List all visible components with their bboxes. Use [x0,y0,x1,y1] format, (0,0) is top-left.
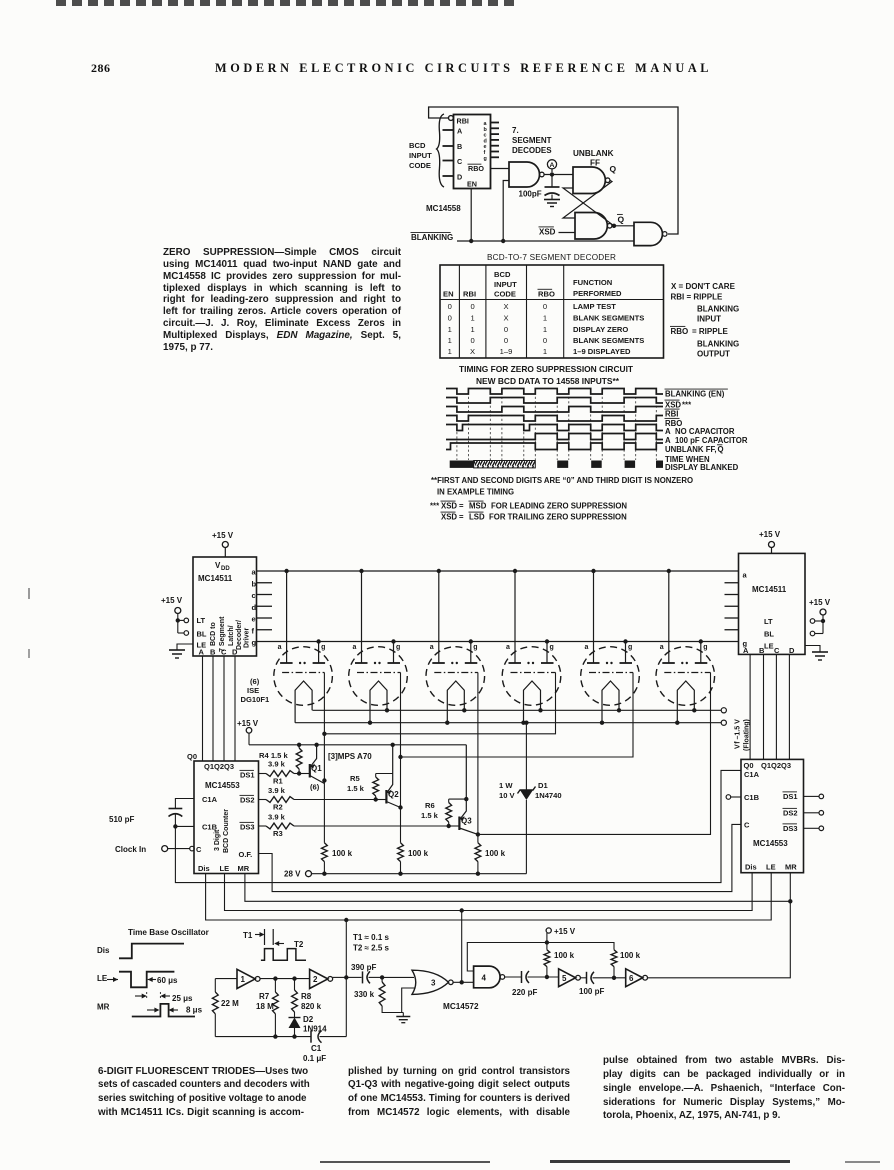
label MC14572 [443,1002,479,1011]
resistor R6 1.5k [421,797,468,828]
svg-text:FUNCTION: FUNCTION [573,278,612,287]
svg-text:[3]MPS A70: [3]MPS A70 [328,752,372,761]
svg-text:(Floating): (Floating) [744,719,751,751]
resistor R5 1.5k [347,743,395,802]
svg-text:g: g [628,644,632,651]
svg-text:+15 V: +15 V [237,719,259,728]
svg-text:TIMING FOR ZERO SUPPRESSION CI: TIMING FOR ZERO SUPPRESSION CIRCUIT [459,364,634,374]
running head [215,61,712,76]
svg-text:RBO: RBO [468,164,484,173]
inverter G6 osc 2 [310,969,333,988]
svg-text:MC14572: MC14572 [443,1002,479,1011]
svg-text:=: = [459,502,464,511]
svg-text:MC14553: MC14553 [205,781,240,790]
svg-text:DS3: DS3 [240,823,255,832]
svg-text:820 k: 820 k [301,1002,322,1011]
svg-text:1: 1 [543,347,547,356]
svg-text:+15 V: +15 V [809,598,831,607]
capacitor 510pF [109,799,194,829]
svg-text:DS1: DS1 [783,792,798,801]
waveform unblank FF Q [446,443,663,450]
svg-text:OUTPUT: OUTPUT [697,350,730,359]
svg-text:100 pF: 100 pF [579,987,604,996]
svg-text:g: g [321,644,325,651]
input BLANKING [411,232,635,243]
svg-text:LE: LE [764,642,774,651]
wire Dis to right LE [206,873,772,923]
svg-text:(6): (6) [310,783,320,792]
wire +15V rail transistors [237,719,466,745]
svg-text:Driver: Driver [244,627,251,648]
segment stubs b-f left [257,583,273,630]
IC U3 MC14511 right [739,553,806,654]
svg-text:Time Base Oscillator: Time Base Oscillator [128,928,210,937]
svg-text:22 M: 22 M [221,999,239,1008]
svg-text:D: D [232,648,238,657]
svg-text:BLANKING: BLANKING [411,233,453,242]
svg-text:LE: LE [220,864,230,873]
wire gate3 to gate4 [453,911,474,985]
waveform A 100pF capacitor [446,434,663,440]
bottom column 3 [603,1054,845,1123]
svg-text:RBI = RIPPLE: RBI = RIPPLE [671,293,723,302]
wire BCD lines left [203,656,236,761]
svg-text:b: b [252,579,257,588]
resistor R3 3.9k [259,813,449,839]
svg-text:c: c [252,591,256,600]
svg-text:R2: R2 [273,803,283,812]
ground 330k [396,1013,410,1023]
page number [91,61,111,76]
diode D2 1N914 [289,1015,328,1039]
waveform RBI [446,407,663,413]
svg-text:D2: D2 [303,1015,314,1024]
svg-text:BCD-TO-7 SEGMENT DECODER: BCD-TO-7 SEGMENT DECODER [487,253,616,262]
svg-text:IN EXAMPLE TIMING: IN EXAMPLE TIMING [437,488,514,497]
svg-text:g: g [550,644,554,651]
svg-text:XSD: XSD [441,513,457,522]
wire gate4 feedback [467,940,614,971]
svg-text:A: A [550,162,555,169]
svg-text:UNBLANK FF,: UNBLANK FF, [665,445,717,454]
svg-text:25 μs: 25 μs [172,994,193,1003]
svg-text:C: C [196,845,202,854]
svg-text:0: 0 [543,336,547,345]
legend table notes [670,282,739,359]
waveform A no capacitor [446,425,663,431]
resistor R7 18M [256,976,310,1038]
svg-text:6: 6 [629,974,634,983]
svg-text:BLANK SEGMENTS: BLANK SEGMENTS [573,336,644,345]
resistor 100k Q3 [475,843,506,874]
svg-text:g: g [252,638,257,647]
svg-text:XSD: XSD [665,401,681,410]
svg-text:330 k: 330 k [354,990,375,999]
svg-text:D1: D1 [538,781,548,790]
tube V6 DG10F1 [656,571,715,723]
svg-text:INPUT: INPUT [409,151,432,160]
svg-text:g: g [484,156,487,162]
svg-text:Dis: Dis [97,946,110,955]
terminal DS3 right [804,826,824,831]
svg-text:3.9 k: 3.9 k [268,813,286,822]
wire G1 second input from blanking [503,181,509,242]
svg-text:100 k: 100 k [485,849,506,858]
segment stubs right 14511 [725,583,739,630]
inverter G5 osc 1 [215,969,260,988]
waveform XSD [446,398,663,404]
BCD input stubs A B C D [443,130,454,176]
svg-text:MC14511: MC14511 [752,585,787,594]
svg-text:1: 1 [543,314,547,323]
inverter G9 5 [559,969,581,987]
svg-text:Q: Q [718,445,724,454]
inverter G10 6 [626,969,648,987]
svg-text:(6): (6) [250,677,260,686]
svg-text:510 pF: 510 pF [109,815,134,824]
svg-text:BLANKING: BLANKING [697,305,739,314]
svg-text:1–9 DISPLAYED: 1–9 DISPLAYED [573,347,631,356]
wire MR bus [245,873,793,904]
capacitor C 100pF [519,175,560,199]
resistor R4 1.5k [259,743,302,776]
svg-text:g: g [703,644,707,651]
wire segment a bus [257,569,739,573]
svg-text:0.1 μF: 0.1 μF [303,1054,326,1063]
terminal DS1 right [804,794,824,799]
svg-text:INPUT: INPUT [697,315,721,324]
tube V3 DG10F1 [426,571,485,723]
IC U2 MC14511 left [193,557,257,657]
svg-text:Latch/: Latch/ [228,625,235,646]
svg-text:0: 0 [448,302,452,311]
svg-text:d: d [252,603,257,612]
svg-text:DD: DD [221,566,230,572]
capacitor 100pF [579,972,626,996]
svg-text:1.5 k: 1.5 k [347,784,365,793]
svg-text:B: B [210,648,216,657]
svg-text:1: 1 [448,347,452,356]
svg-text:5: 5 [562,974,567,983]
capacitor 390pF [346,963,414,983]
svg-text:BL: BL [764,630,774,639]
wire LE to right Dis [225,873,753,913]
label Time Base Oscillator [128,928,210,937]
svg-text:R3: R3 [273,829,283,838]
wire segment g bus [257,639,739,643]
svg-text:MSD: MSD [469,502,487,511]
svg-text:C1: C1 [311,1044,322,1053]
input XSD [539,227,576,237]
svg-text:1: 1 [543,325,547,334]
svg-text:EN: EN [443,290,454,299]
resistor R8 820k [292,976,322,1017]
gate G7 NOR 3 [402,970,453,1012]
svg-text:X: X [503,302,508,311]
svg-text:B: B [759,646,765,655]
svg-text:DG10F1: DG10F1 [241,695,270,704]
svg-text:7.: 7. [512,126,519,135]
svg-text:DS2: DS2 [240,796,255,805]
label tube type (6) ISE DG10F1 [241,677,270,704]
terminal Clock In [115,845,190,854]
7 segment output stubs [491,123,553,158]
svg-text:Q2: Q2 [388,790,399,799]
waveform BLANKING (EN) [446,389,663,395]
power terminal +15V right 14511 [759,530,781,553]
svg-text:100 k: 100 k [332,849,353,858]
svg-text:RBI: RBI [665,410,678,419]
ground below C [544,195,560,207]
svg-text:R1: R1 [273,777,283,786]
svg-text:MR: MR [238,864,250,873]
wire Qbar to G4 [614,225,634,227]
tube V4 DG10F1 [502,571,561,723]
svg-text:LT: LT [764,617,773,626]
svg-text:R4 1.5 k: R4 1.5 k [259,751,288,760]
svg-text:0: 0 [470,336,474,345]
label UNBLANK FF [573,149,614,168]
svg-text:A 100 pF CAPACITOR: A 100 pF CAPACITOR [665,436,748,445]
svg-text:1 W: 1 W [499,781,513,790]
svg-text:+15 V: +15 V [161,596,183,605]
svg-text:XSD: XSD [441,502,457,511]
svg-text:T1 ≈ 0.1 s: T1 ≈ 0.1 s [353,933,390,942]
wire C1B to right C1A [175,770,741,882]
transistor Q3 [449,745,478,835]
svg-text:LE: LE [766,863,776,872]
svg-text:3.9 k: 3.9 k [268,786,286,795]
svg-text:a: a [660,644,664,651]
svg-text:1N4740: 1N4740 [535,791,562,800]
svg-text:X: X [470,347,475,356]
svg-text:DISPLAY ZERO: DISPLAY ZERO [573,325,628,334]
wire grid line tube1 to Q1 [322,673,326,843]
timing labels [665,389,748,472]
svg-text:Clock In: Clock In [115,845,146,854]
wire EN to blanking [470,189,472,242]
svg-text:100pF: 100pF [519,190,542,199]
svg-text:a: a [353,644,357,651]
resistor 100k Q2 [398,843,429,874]
svg-text:Decoder/: Decoder/ [236,620,243,650]
waveform LE [97,972,178,988]
bottom column 2 [348,1065,570,1120]
wire inv6 to MR bus [648,901,791,978]
svg-text:A: A [457,127,462,136]
svg-text:B: B [457,142,462,151]
diode D1 1N4740 zener [499,723,562,874]
svg-text:R6: R6 [425,801,435,810]
svg-text:C1A: C1A [744,770,760,779]
svg-text:Q0: Q0 [187,752,197,761]
svg-text:RBO: RBO [671,327,689,336]
resistor 100k mvbr right [611,950,640,978]
IC U5 MC14553 right counter [741,759,804,872]
svg-text:BL: BL [197,630,207,639]
svg-text:DECODES: DECODES [512,146,552,155]
svg-text:1.5 k: 1.5 k [421,811,439,820]
wire filament bus 1 [312,708,721,712]
svg-text:10 V: 10 V [499,791,516,800]
tube V5 DG10F1 [581,571,640,723]
wire OF to right C [259,824,742,891]
svg-text:**FIRST AND SECOND DIGITS ARE: **FIRST AND SECOND DIGITS ARE “0” AND TH… [431,476,693,485]
svg-text:a: a [585,644,589,651]
svg-text:18 M: 18 M [256,1002,274,1011]
svg-text:C1B: C1B [744,793,760,802]
svg-text:BLANKING: BLANKING [697,340,739,349]
svg-text:1: 1 [470,325,474,334]
title timing [459,364,634,386]
svg-text:a: a [278,644,282,651]
svg-text:MC14553: MC14553 [753,839,788,848]
svg-text:g: g [473,644,477,651]
wire digit select 1 to tube4 [324,673,555,734]
waveform Dis [97,944,184,959]
svg-text:BLANK SEGMENTS: BLANK SEGMENTS [573,314,644,323]
ground at LE left 14511 [169,644,193,658]
svg-text:3.9 k: 3.9 k [268,760,286,769]
top bleed text row [56,0,520,6]
svg-text:LE: LE [97,974,108,983]
capacitor 220pF [504,971,558,997]
svg-text:1: 1 [470,314,474,323]
svg-text:4: 4 [482,974,487,983]
svg-text:0: 0 [543,302,547,311]
svg-text:A: A [743,646,749,655]
svg-text:a: a [430,644,434,651]
svg-text:0: 0 [448,314,452,323]
brace BCD INPUT CODE [409,114,444,187]
wire feedback top loop from output NAND to RBI [429,107,678,234]
svg-text:220 pF: 220 pF [512,988,537,997]
wire digit select 2 to tube5 [401,673,634,758]
tube V1 DG10F1 [274,571,333,723]
svg-text:MR: MR [97,1003,110,1012]
wire filament bus 2 [295,721,721,725]
terminal +15V at right LT BL [809,598,831,636]
title BCD-TO-7 SEGMENT DECODER [487,253,616,262]
svg-text:R8: R8 [301,992,312,1001]
svg-text:+15 V: +15 V [759,530,781,539]
pin C1B bubble right counter [726,795,741,800]
svg-text:Q1Q2Q3: Q1Q2Q3 [204,762,234,771]
svg-text:V f –1.5 V: V f –1.5 V [735,719,742,749]
svg-text:O.F.: O.F. [239,850,253,859]
node A [544,160,573,177]
svg-text:Q0: Q0 [744,761,754,770]
svg-text:PERFORMED: PERFORMED [573,289,622,298]
resistor 100k mvbr left [544,950,575,977]
NAND gate G2 flip-flop top, output Q [573,164,617,194]
svg-text:2: 2 [313,975,318,984]
svg-text:UNBLANK: UNBLANK [573,149,614,158]
svg-text:Q1Q2Q3: Q1Q2Q3 [761,761,791,770]
footnotes [430,476,693,522]
timing grid dashed lines [457,388,656,460]
resistor 22M [212,979,239,1037]
svg-text:1–9: 1–9 [500,347,513,356]
transistor Q2 [376,745,401,808]
svg-text:= RIPPLE: = RIPPLE [692,327,728,336]
svg-text:1N914: 1N914 [303,1025,327,1034]
label T1 T2 values [353,933,390,953]
left article paragraph [163,247,401,354]
svg-text:100 k: 100 k [554,951,575,960]
svg-text:+15 V: +15 V [554,927,576,936]
svg-text:a: a [506,644,510,651]
wire grid line tube3 to Q3 [476,673,480,843]
waveform MR [97,992,203,1017]
svg-text:1: 1 [448,325,452,334]
svg-text:0: 0 [470,302,474,311]
svg-text:R7: R7 [259,992,270,1001]
svg-text:C1A: C1A [202,795,218,804]
svg-text:Dis: Dis [198,864,210,873]
tube V2 DG10F1 [349,571,408,723]
resistor 100k Q1 [322,843,353,874]
svg-text:LSD: LSD [469,513,485,522]
svg-text:ISE: ISE [247,686,259,695]
svg-text:CODE: CODE [409,161,431,170]
svg-text:DS2: DS2 [783,809,798,818]
terminal +15V at LT BL [161,596,189,635]
waveform T1 T2 pulses [243,929,306,960]
terminal 28V [284,870,526,879]
svg-text:g: g [396,644,400,651]
waveform RBO [446,416,663,422]
svg-text:T2: T2 [294,940,304,949]
svg-text:C: C [221,648,227,657]
power terminal +15V left 14511 [212,531,234,557]
svg-text:XSD: XSD [539,228,556,237]
svg-text:28 V: 28 V [284,870,301,879]
svg-text:INPUT: INPUT [494,280,517,289]
svg-text:0: 0 [504,325,508,334]
wire cross coupling FF [563,180,616,228]
wire RBO to gate 1 [491,168,510,170]
svg-text:RBI: RBI [457,117,469,126]
wire digit select 3 to tube6 [478,673,711,835]
svg-text:T1: T1 [243,931,253,940]
svg-text:3 Digit: 3 Digit [214,829,221,851]
svg-text:100 k: 100 k [620,951,641,960]
wire BCD lines right [750,654,789,759]
svg-text:BCD to: BCD to [210,622,217,646]
svg-text:f: f [252,626,255,635]
NAND gate G3 flip-flop bottom, output Qbar [575,213,625,240]
svg-text:1: 1 [241,975,246,984]
svg-text:0: 0 [504,336,508,345]
svg-text:a: a [743,571,748,580]
bottom page bleed lines [320,1161,490,1163]
svg-text:Q1: Q1 [311,764,322,773]
svg-text:=: = [459,513,464,522]
svg-text:D: D [457,173,462,182]
wire osc feedback [333,920,349,1037]
svg-text:1: 1 [448,336,452,345]
terminal DS2 right [804,811,824,816]
IC U1 MC14558 decoder [426,115,491,214]
NAND gate G1 MC14011 [509,162,544,187]
svg-text:C: C [457,157,462,166]
terminal +15V mvbr [546,927,576,950]
svg-text:X: X [503,314,508,323]
svg-text:100 k: 100 k [408,849,429,858]
svg-text:FOR LEADING ZERO SUPPRESSION: FOR LEADING ZERO SUPPRESSION [491,502,627,511]
display blanked bars [450,461,663,468]
